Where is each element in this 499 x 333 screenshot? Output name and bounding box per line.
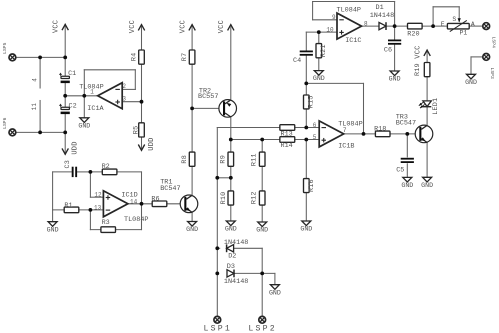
svg-text:TL084P: TL084P — [337, 7, 361, 15]
svg-text:R16: R16 — [308, 179, 316, 192]
svg-text:R8: R8 — [181, 155, 189, 164]
svg-text:LED1: LED1 — [432, 98, 440, 115]
svg-text:GND: GND — [186, 226, 198, 233]
svg-text:R7: R7 — [181, 53, 189, 62]
svg-text:1: 1 — [90, 88, 94, 95]
svg-text:VCC: VCC — [179, 20, 187, 33]
svg-text:C4: C4 — [293, 57, 301, 65]
svg-text:R10: R10 — [220, 192, 228, 205]
svg-text:8: 8 — [364, 20, 368, 27]
svg-text:GND: GND — [269, 289, 281, 296]
svg-text:11: 11 — [31, 103, 38, 111]
svg-text:LSP3: LSP3 — [489, 67, 495, 79]
svg-text:VCC: VCC — [129, 20, 137, 33]
svg-text:C5: C5 — [396, 167, 404, 175]
svg-text:7: 7 — [343, 127, 347, 134]
svg-text:1N4148: 1N4148 — [224, 239, 248, 247]
svg-text:R15: R15 — [308, 95, 316, 108]
svg-text:LSP6: LSP6 — [2, 117, 8, 129]
svg-text:R6: R6 — [151, 195, 159, 203]
svg-text:R5: R5 — [132, 126, 140, 135]
svg-text:R19: R19 — [414, 63, 422, 76]
svg-text:A: A — [471, 21, 475, 28]
svg-text:D3: D3 — [227, 263, 235, 271]
svg-text:IC1C: IC1C — [345, 37, 361, 45]
svg-text:GND: GND — [225, 226, 237, 233]
svg-text:S: S — [452, 16, 456, 23]
svg-text:UDD: UDD — [148, 137, 156, 150]
svg-text:GND: GND — [47, 226, 59, 233]
svg-text:9: 9 — [332, 14, 336, 21]
svg-text:3: 3 — [122, 96, 126, 103]
svg-text:GND: GND — [300, 226, 312, 233]
svg-text:BC547: BC547 — [160, 185, 180, 193]
svg-text:GND: GND — [401, 182, 413, 189]
svg-text:IC1A: IC1A — [87, 105, 104, 113]
svg-text:R11: R11 — [251, 153, 259, 166]
svg-text:C2: C2 — [69, 103, 77, 111]
svg-text:E: E — [441, 21, 445, 28]
svg-text:GND: GND — [465, 79, 477, 86]
svg-text:C1: C1 — [68, 70, 76, 78]
svg-text:R1: R1 — [64, 202, 72, 210]
svg-text:LSP2: LSP2 — [248, 325, 276, 333]
svg-text:6: 6 — [313, 122, 317, 129]
svg-text:R21: R21 — [320, 44, 328, 57]
svg-text:C3: C3 — [64, 160, 72, 169]
svg-text:14: 14 — [130, 198, 138, 205]
svg-text:LSP5: LSP5 — [2, 42, 8, 54]
svg-text:TL084P: TL084P — [338, 121, 362, 129]
svg-text:1N4148: 1N4148 — [224, 278, 248, 286]
svg-text:GND: GND — [389, 76, 401, 83]
svg-text:VCC: VCC — [414, 45, 422, 58]
svg-text:R4: R4 — [130, 53, 138, 62]
svg-text:2: 2 — [122, 83, 126, 90]
svg-text:GND: GND — [313, 75, 325, 82]
svg-text:R13: R13 — [281, 130, 293, 138]
svg-text:R2: R2 — [102, 163, 110, 171]
svg-text:R20: R20 — [407, 30, 419, 38]
svg-text:10: 10 — [326, 27, 334, 34]
svg-text:BC557: BC557 — [198, 93, 218, 101]
svg-text:R18: R18 — [374, 125, 386, 133]
svg-text:5: 5 — [313, 134, 317, 141]
svg-text:GND: GND — [78, 122, 90, 129]
svg-text:IC1B: IC1B — [338, 142, 354, 150]
svg-text:UDD: UDD — [72, 141, 80, 154]
svg-text:LSP1: LSP1 — [204, 325, 232, 333]
svg-text:D2: D2 — [228, 253, 236, 261]
svg-text:4: 4 — [31, 78, 38, 82]
svg-text:R3: R3 — [102, 219, 110, 227]
svg-text:BC547: BC547 — [396, 120, 416, 128]
svg-text:12: 12 — [94, 192, 102, 199]
svg-text:VCC: VCC — [218, 20, 226, 33]
svg-text:GND: GND — [421, 182, 433, 189]
svg-text:1N4148: 1N4148 — [370, 12, 394, 20]
svg-text:LSP4: LSP4 — [491, 37, 497, 49]
svg-text:R12: R12 — [251, 191, 259, 204]
svg-text:VCC: VCC — [53, 20, 61, 33]
svg-text:GND: GND — [256, 227, 268, 234]
svg-text:R14: R14 — [281, 142, 293, 150]
svg-text:C6: C6 — [384, 47, 392, 55]
svg-text:R9: R9 — [220, 155, 228, 164]
svg-text:13: 13 — [94, 204, 102, 211]
svg-text:TL084P: TL084P — [124, 216, 148, 224]
svg-text:P1: P1 — [460, 29, 468, 36]
